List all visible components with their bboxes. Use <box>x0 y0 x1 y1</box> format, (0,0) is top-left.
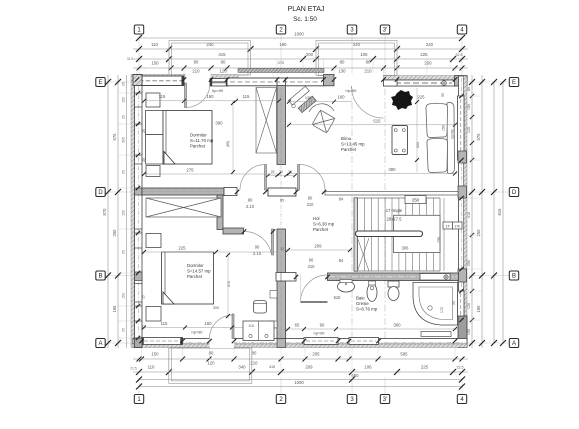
door leaf bedroom1 balcony <box>185 83 187 108</box>
svg-text:Sc. 1:50: Sc. 1:50 <box>293 16 317 23</box>
bath door jamb line <box>300 275 302 303</box>
wall jamb ticks top <box>135 77 457 82</box>
bottom window bath <box>349 338 379 345</box>
bath toilet <box>388 281 399 287</box>
svg-text:870: 870 <box>102 208 107 216</box>
svg-text:3': 3' <box>383 28 387 34</box>
svg-text:575: 575 <box>112 133 117 141</box>
svg-text:(85): (85) <box>226 141 230 147</box>
svg-text:150: 150 <box>122 210 126 216</box>
vent symbol top-right <box>442 81 447 86</box>
office desk diagonal white strip <box>289 86 310 105</box>
svg-text:225: 225 <box>420 52 428 57</box>
grid bubble E right <box>509 78 518 87</box>
hall dim ticks doors <box>235 190 239 194</box>
bedroom2 north wall horizontal stub <box>223 228 244 234</box>
svg-text:150: 150 <box>467 104 471 110</box>
svg-text:515: 515 <box>373 119 381 124</box>
svg-text:Hol: Hol <box>313 216 320 221</box>
grid bubble 3 top <box>347 25 356 34</box>
staircase left wall <box>354 198 358 271</box>
svg-text:80: 80 <box>252 351 257 356</box>
office dim 515 <box>287 124 457 126</box>
svg-text:22.5: 22.5 <box>457 366 464 370</box>
bedroom2 side niche boxes <box>270 291 277 299</box>
balcony top-left outline <box>169 41 251 76</box>
nightstand bedroom1 top <box>146 93 160 107</box>
left wall centerline <box>138 77 140 346</box>
wardrobe boxes left of bed1 <box>146 111 164 135</box>
svg-text:225: 225 <box>421 365 429 370</box>
door bedroom2 swing arc <box>244 231 272 255</box>
office small circle <box>292 104 296 108</box>
svg-text:300: 300 <box>416 142 420 148</box>
svg-text:A: A <box>512 341 516 347</box>
svg-text:205: 205 <box>312 352 320 357</box>
svg-text:210: 210 <box>192 69 200 74</box>
office coffee table <box>392 126 408 155</box>
svg-text:275: 275 <box>186 168 194 173</box>
dimension row 4 (top) window/door widths <box>133 67 468 69</box>
B wall window box <box>420 274 450 281</box>
svg-text:120: 120 <box>207 361 215 366</box>
door opening top (bedroom1 balcony door) <box>186 74 211 87</box>
grid bubble B left <box>96 271 105 280</box>
svg-text:370: 370 <box>227 281 231 287</box>
nightstand bedroom1 bottom <box>146 166 160 177</box>
svg-text:160: 160 <box>337 95 345 100</box>
svg-text:3': 3' <box>383 397 387 403</box>
svg-text:160: 160 <box>206 94 214 99</box>
bath bench <box>421 332 451 337</box>
svg-text:S=13.45 mp: S=13.45 mp <box>341 142 365 147</box>
svg-text:Baie: Baie <box>356 296 365 301</box>
svg-text:795: 795 <box>437 237 441 243</box>
svg-text:120: 120 <box>467 127 471 133</box>
door bedroom2 leaf <box>272 229 274 255</box>
svg-text:25: 25 <box>271 170 275 174</box>
svg-text:32.5: 32.5 <box>456 53 463 57</box>
svg-text:E: E <box>512 80 516 86</box>
extension lines right <box>468 96 482 320</box>
corner block top-left redraw <box>133 75 142 86</box>
door bedroom1 swing arc <box>240 165 266 191</box>
door bedroom1 leaf <box>265 165 267 191</box>
svg-text:515: 515 <box>334 295 342 300</box>
svg-text:150: 150 <box>122 293 126 299</box>
grid bubble 2 bottom <box>276 395 285 404</box>
bedroom2 desk <box>243 321 274 341</box>
svg-text:130: 130 <box>338 69 346 74</box>
stair break diagonals <box>358 238 370 271</box>
svg-text:300: 300 <box>213 306 219 310</box>
svg-text:90: 90 <box>255 245 260 250</box>
svg-text:S=14.57 mp: S=14.57 mp <box>187 269 211 274</box>
svg-text:200: 200 <box>306 52 314 57</box>
tall wardrobe bedroom1 <box>256 88 277 154</box>
svg-text:80: 80 <box>221 60 226 65</box>
staircase treads <box>358 198 445 271</box>
interior wall grid2 below B <box>277 281 286 339</box>
grid bubble 3' bottom <box>380 395 389 404</box>
exterior top wall band left <box>133 79 238 86</box>
exterior right wall band <box>459 76 464 348</box>
bedroom2 dims <box>142 251 277 253</box>
grid bubble D left <box>96 188 105 197</box>
svg-text:100: 100 <box>467 329 471 335</box>
svg-text:815: 815 <box>497 208 502 216</box>
svg-text:190: 190 <box>279 42 287 47</box>
svg-text:250: 250 <box>476 229 481 237</box>
svg-text:2.10: 2.10 <box>246 204 255 209</box>
D wall pier between doors <box>268 188 296 196</box>
left wall junction B <box>135 272 143 281</box>
svg-text:306: 306 <box>402 246 410 251</box>
grid axis extension lines <box>106 35 509 395</box>
svg-text:25: 25 <box>122 115 126 119</box>
small tag boxes right of stairs <box>443 222 453 229</box>
bedroom1 dim line <box>142 100 281 102</box>
grid bubble 1 top <box>134 25 143 34</box>
svg-text:25: 25 <box>281 247 285 251</box>
bed1 fold triangle <box>164 152 175 165</box>
svg-text:115: 115 <box>161 321 168 326</box>
svg-text:85: 85 <box>467 87 471 91</box>
svg-text:110: 110 <box>148 365 155 370</box>
left wall bottom corner <box>135 338 143 348</box>
svg-text:80: 80 <box>340 60 345 65</box>
svg-text:Gresie: Gresie <box>356 301 369 306</box>
svg-text:650: 650 <box>351 373 359 378</box>
svg-text:1000: 1000 <box>294 32 304 37</box>
balcony top-right outline <box>316 41 397 76</box>
door swing arc bedroom1 balcony <box>186 83 211 108</box>
bottom window bedroom2 <box>142 338 183 345</box>
svg-text:21.5: 21.5 <box>130 367 136 371</box>
svg-text:Dormitor: Dormitor <box>190 133 207 138</box>
grid axis dash-dot verticals 3 and 3prime <box>352 75 385 348</box>
exterior left wall hatch strip <box>131 75 135 348</box>
right wall window bath <box>458 291 465 321</box>
bedroom2 north wall vertical stub <box>217 195 223 230</box>
window W1 top-left <box>137 76 184 86</box>
svg-text:90: 90 <box>308 196 313 201</box>
exterior wall top-right hatch <box>384 76 468 80</box>
corner block bottom-left redraw <box>135 338 143 348</box>
svg-text:210: 210 <box>308 264 316 269</box>
svg-text:415: 415 <box>269 365 275 369</box>
svg-text:25: 25 <box>122 250 126 254</box>
svg-text:D: D <box>98 190 103 196</box>
door bath swing arc <box>301 275 328 302</box>
svg-text:120: 120 <box>467 303 471 309</box>
grid bubble 1 bottom <box>134 395 143 404</box>
bottom window hall <box>304 338 338 345</box>
exterior right wall hatch strip <box>464 76 468 348</box>
office chair backrest arc <box>309 104 334 112</box>
exterior wall top-left segment hatch <box>133 75 238 80</box>
right wall window office <box>458 96 465 160</box>
exterior bottom wall band <box>133 339 467 345</box>
grid bubble B right <box>509 271 518 280</box>
nightstand bedroom2 top <box>146 234 161 248</box>
grid bubble 4 top <box>457 25 466 34</box>
svg-text:25: 25 <box>122 82 126 86</box>
svg-text:225: 225 <box>417 95 425 100</box>
door leaf bedroom2 balcony <box>232 314 234 339</box>
exterior left wall band <box>135 75 143 348</box>
dimension row 1000 (top) <box>139 37 462 39</box>
svg-text:595: 595 <box>400 352 408 357</box>
svg-text:hp=90: hp=90 <box>212 88 224 93</box>
level marker box 250 <box>405 196 426 204</box>
D wall cap box <box>224 188 237 196</box>
stairwell landing void <box>394 215 441 252</box>
dimension row 3 (top) 415/200/106/225 <box>133 58 468 60</box>
svg-text:90: 90 <box>320 323 325 328</box>
svg-text:150: 150 <box>151 352 159 357</box>
left wall window mullion ticks <box>135 93 143 321</box>
exterior bottom wall hatch strip <box>133 344 467 348</box>
svg-text:250: 250 <box>112 229 117 237</box>
grid bubble 4 bottom <box>457 395 466 404</box>
right wall pier D <box>458 186 467 198</box>
svg-text:25: 25 <box>142 325 146 329</box>
bottom wall centerline <box>135 342 465 344</box>
svg-text:hp=90: hp=90 <box>451 129 455 139</box>
door swing arc bedroom2 balcony <box>210 315 234 339</box>
svg-text:209: 209 <box>305 365 313 370</box>
grid bubble A left <box>96 339 105 348</box>
svg-text:hp=90: hp=90 <box>314 331 326 336</box>
interior wall D left segment <box>142 188 224 195</box>
bottom dimension row 4 1000 <box>139 386 462 388</box>
bottom dimension row 3 650 <box>139 379 462 381</box>
svg-text:160: 160 <box>204 321 212 326</box>
door bath leaf <box>301 301 328 303</box>
wardrobe crossed bedroom2 <box>146 198 221 217</box>
wall jamb ticks right <box>459 94 464 322</box>
bath dims <box>286 328 457 330</box>
svg-text:25: 25 <box>452 301 456 305</box>
interior wall B (bath north) <box>328 273 459 281</box>
grid bubble 3 bottom <box>347 395 356 404</box>
svg-text:17 trepte: 17 trepte <box>386 208 403 213</box>
svg-text:17b: 17b <box>455 224 461 228</box>
svg-text:35: 35 <box>279 170 283 174</box>
door office swing arc <box>300 165 326 191</box>
svg-text:150: 150 <box>442 125 446 131</box>
svg-text:25: 25 <box>142 158 146 162</box>
svg-text:106: 106 <box>364 365 372 370</box>
dimension row 2 (top) 110/240/190/240/220 <box>133 48 468 50</box>
svg-text:80: 80 <box>366 60 371 65</box>
bed bedroom1 <box>163 111 212 165</box>
grid bubble E left <box>96 78 105 87</box>
svg-text:90: 90 <box>309 258 314 263</box>
office desk diagonal hatched strip <box>298 96 316 112</box>
grid bubble 3' top <box>380 25 389 34</box>
svg-text:340: 340 <box>238 365 246 370</box>
svg-text:55: 55 <box>441 93 445 97</box>
stair handrail bar <box>356 231 423 237</box>
svg-text:115: 115 <box>248 324 254 328</box>
bedroom2 chair <box>254 301 267 314</box>
left wall junction D <box>135 188 143 195</box>
bottom dimension row 1 <box>133 358 468 360</box>
svg-text:Birou: Birou <box>341 136 352 141</box>
door office leaf <box>298 165 300 191</box>
extension lines top <box>137 49 455 75</box>
svg-text:25: 25 <box>122 170 126 174</box>
svg-text:S=11.70 mp: S=11.70 mp <box>190 138 214 143</box>
bottom dimension row 2 <box>133 371 468 373</box>
office dim 390 <box>287 173 457 175</box>
grid bubble D right <box>509 188 518 197</box>
svg-text:90: 90 <box>248 198 253 203</box>
vent symbol B wall <box>444 275 448 279</box>
svg-text:115: 115 <box>243 94 250 99</box>
svg-text:hp=90: hp=90 <box>346 88 358 93</box>
svg-text:210: 210 <box>364 69 372 74</box>
bath sink <box>338 281 355 292</box>
svg-text:Dormitor: Dormitor <box>187 263 204 268</box>
svg-text:S=6.30 mp: S=6.30 mp <box>313 222 335 227</box>
svg-text:Parchet: Parchet <box>313 227 329 232</box>
svg-text:31.5: 31.5 <box>127 57 133 61</box>
svg-text:84: 84 <box>339 258 344 263</box>
svg-text:2.10: 2.10 <box>253 251 262 256</box>
right wall pier1 <box>458 151 467 163</box>
svg-text:195: 195 <box>476 305 481 313</box>
svg-text:150: 150 <box>122 97 126 103</box>
svg-text:28x17.5: 28x17.5 <box>387 217 403 222</box>
svg-text:25: 25 <box>122 328 126 332</box>
nightstand bedroom2 bottom <box>146 307 161 322</box>
sofa office <box>426 103 455 174</box>
svg-text:S=8.76 mp: S=8.76 mp <box>356 307 378 312</box>
svg-text:106: 106 <box>360 52 368 57</box>
svg-text:Parchet: Parchet <box>187 274 203 279</box>
svg-text:65: 65 <box>295 323 300 328</box>
wall jamb ticks left <box>136 91 140 340</box>
svg-text:B: B <box>512 274 516 280</box>
svg-text:390: 390 <box>215 121 223 126</box>
svg-text:A: A <box>98 341 102 347</box>
wall jamb ticks bottom <box>139 339 457 343</box>
left dimension column lines <box>107 75 109 348</box>
plant black blob <box>391 90 413 110</box>
D boundary line hall/stairs <box>325 192 458 196</box>
bed2 fold triangle <box>163 292 174 304</box>
svg-text:85: 85 <box>280 199 284 203</box>
svg-text:360: 360 <box>393 323 401 328</box>
top wall small window hp90 segment <box>210 79 228 87</box>
top wall pier between window and balcony door <box>324 75 335 86</box>
wall B radiator niche box <box>276 273 296 282</box>
window band W3 top-right <box>384 80 456 86</box>
corner bathtub <box>413 283 458 326</box>
svg-text:B: B <box>98 274 102 280</box>
svg-text:hp=90: hp=90 <box>192 330 204 335</box>
svg-text:D: D <box>512 190 517 196</box>
svg-text:415: 415 <box>218 52 226 57</box>
hall dims <box>286 249 352 251</box>
balcony bottom outline <box>169 348 252 383</box>
svg-text:35: 35 <box>288 170 292 174</box>
extension lines bottom <box>142 348 456 380</box>
svg-text:270: 270 <box>278 61 284 65</box>
svg-text:195: 195 <box>112 305 117 313</box>
svg-text:390: 390 <box>388 167 396 172</box>
right wall pier B <box>458 269 467 282</box>
svg-text:Parchet: Parchet <box>341 147 357 152</box>
svg-text:115: 115 <box>159 94 166 99</box>
balcony door opening office <box>335 74 384 87</box>
right wall centerline <box>461 78 463 346</box>
svg-text:172: 172 <box>440 307 444 313</box>
bottom wall junction grid2 <box>277 338 286 348</box>
svg-text:135: 135 <box>305 96 311 100</box>
svg-text:Parchet: Parchet <box>190 144 206 149</box>
svg-text:E: E <box>98 80 102 86</box>
office chair <box>312 110 335 133</box>
svg-text:410: 410 <box>467 212 471 218</box>
svg-text:305: 305 <box>122 137 126 143</box>
svg-text:110: 110 <box>151 42 158 47</box>
right dimension column lines <box>471 75 473 348</box>
long window W2 top-center <box>227 78 324 86</box>
door swing arc office balcony <box>352 86 384 118</box>
svg-text:25: 25 <box>142 295 146 299</box>
top-right corner wall <box>455 76 468 86</box>
bath bidet <box>367 284 377 302</box>
svg-text:84: 84 <box>339 197 344 202</box>
svg-text:210: 210 <box>307 202 315 207</box>
svg-text:209: 209 <box>314 244 322 249</box>
grid bubble 2 top <box>276 25 285 34</box>
svg-text:250: 250 <box>467 260 471 266</box>
bed bedroom2 <box>162 252 214 304</box>
svg-text:80: 80 <box>194 60 199 65</box>
interior wall grid2 lower (bedroom2/hall divider) <box>277 229 286 274</box>
right wall bottom corner column <box>458 316 467 348</box>
svg-text:1000: 1000 <box>294 380 304 385</box>
svg-text:575: 575 <box>476 133 481 141</box>
interior wall grid2 upper (bedroom1/office divider) <box>277 86 286 165</box>
svg-text:225: 225 <box>178 246 186 251</box>
svg-text:25: 25 <box>142 129 146 133</box>
bottom balcony door opening <box>210 338 235 349</box>
svg-text:260: 260 <box>424 61 432 66</box>
svg-text:220: 220 <box>426 42 434 47</box>
extension lines left <box>118 93 131 338</box>
grid bubble A right <box>509 339 518 348</box>
svg-text:PLAN ETAJ: PLAN ETAJ <box>288 6 325 13</box>
top-left corner wall <box>133 75 142 86</box>
svg-text:120: 120 <box>219 69 227 74</box>
svg-text:250: 250 <box>412 198 420 203</box>
exterior hatch band above long window <box>238 68 324 72</box>
svg-text:150: 150 <box>151 61 159 66</box>
